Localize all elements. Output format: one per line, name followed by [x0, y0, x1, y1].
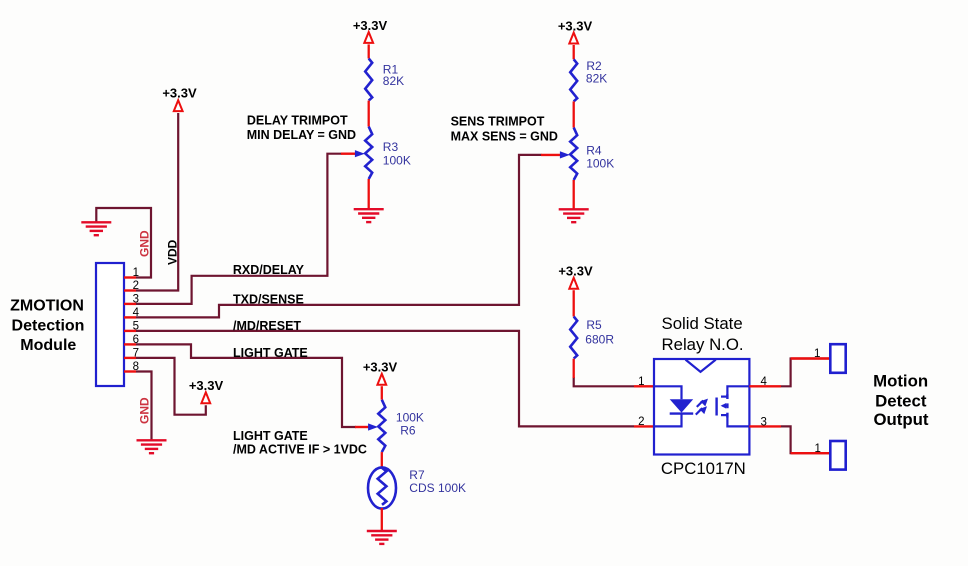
wire R6 to R7	[381, 452, 383, 468]
svg-text:Detection: Detection	[12, 317, 85, 334]
wire opto pin3 to connector J2	[781, 426, 830, 453]
svg-text:82K: 82K	[586, 72, 607, 86]
svg-text:Module: Module	[20, 337, 76, 354]
svg-text:+3.3V: +3.3V	[363, 359, 398, 374]
wire R1 to R3	[368, 101, 370, 127]
svg-text:1: 1	[638, 376, 644, 388]
svg-text:680R: 680R	[585, 332, 614, 346]
svg-text:100K: 100K	[383, 154, 411, 168]
resistor R2	[570, 59, 577, 101]
wire J1 stub red	[791, 357, 831, 359]
power +3.3V P4 (pin7)	[189, 378, 224, 403]
svg-text:RXD/DELAY: RXD/DELAY	[233, 263, 305, 277]
svg-text:+3.3V: +3.3V	[189, 378, 224, 393]
pin 4 stub	[124, 316, 136, 318]
pin 1 stub	[124, 276, 136, 278]
resistor R1	[365, 59, 372, 101]
svg-text:Motion: Motion	[873, 371, 928, 390]
opto light arrow A	[697, 399, 708, 407]
svg-text:Solid State: Solid State	[662, 314, 743, 333]
svg-text:1: 1	[814, 443, 820, 455]
wire R5 lead red part	[573, 359, 575, 378]
svg-text:+3.3V: +3.3V	[162, 86, 197, 101]
svg-text:Detect: Detect	[875, 392, 927, 411]
wire R7 to ground	[381, 508, 383, 530]
opto output MOSFET Q1	[717, 386, 750, 426]
label 100K R6	[396, 411, 424, 438]
svg-text:/MD ACTIVE IF > 1VDC: /MD ACTIVE IF > 1VDC	[233, 442, 367, 456]
svg-text:/MD/RESET: /MD/RESET	[233, 319, 301, 333]
opto pin 4 stub	[749, 385, 781, 387]
connector J1	[830, 344, 845, 373]
module U_ZMOTION body	[96, 263, 124, 386]
trimpot R6	[355, 400, 385, 452]
connector J2	[830, 441, 845, 470]
wire pin5 /MD/RESET to opto pin2	[136, 331, 634, 427]
pin 2 stub	[124, 289, 136, 291]
svg-text:4: 4	[761, 376, 768, 388]
ground G4	[559, 209, 589, 222]
svg-text:LIGHT GATE: LIGHT GATE	[233, 429, 308, 443]
svg-text:82K: 82K	[383, 74, 404, 88]
trimpot R3	[341, 127, 372, 179]
svg-text:Relay N.O.: Relay N.O.	[662, 335, 744, 354]
svg-text:SENS TRIMPOT: SENS TRIMPOT	[451, 115, 545, 129]
svg-text:ZMOTION: ZMOTION	[10, 298, 84, 315]
opto U1 pin 2 stub	[634, 425, 654, 427]
power +3.3V P3 (VDD)	[162, 86, 197, 111]
opto U1 body CPC1017N	[654, 359, 749, 455]
wire pin3 RXD/DELAY	[136, 154, 342, 304]
svg-text:100K: 100K	[586, 156, 614, 170]
label R2 82K	[586, 59, 607, 86]
label R3 100K	[383, 140, 411, 168]
wire J2 stub red	[791, 452, 831, 454]
power +3.3V P6 (R6 top)	[363, 359, 398, 384]
pin 5 stub	[124, 330, 136, 332]
ground G3	[354, 209, 384, 222]
opto U1 pin 1 stub	[634, 385, 654, 387]
module name text ZMOTION Detection Module	[10, 298, 84, 355]
svg-text:+3.3V: +3.3V	[353, 18, 388, 33]
power +3.3V P2 (R2 top)	[558, 18, 593, 43]
wire P2 to R2	[573, 45, 575, 59]
svg-text:DELAY TRIMPOT: DELAY TRIMPOT	[247, 113, 348, 127]
wire pin1 to ground	[96, 208, 151, 278]
opto LED D1	[654, 386, 693, 426]
svg-text:Output: Output	[874, 410, 929, 429]
wire opto pin4 to connector J1	[781, 359, 830, 387]
opto light arrow B	[696, 406, 707, 414]
wire pin8 to ground	[136, 372, 152, 440]
annotation DELAY TRIMPOT	[247, 113, 356, 141]
label R4 100K	[586, 143, 614, 170]
svg-text:R6: R6	[400, 423, 416, 437]
pin 3 stub	[124, 303, 136, 305]
wire P5 to R5	[573, 290, 575, 316]
wire pin4 TXD/SENSE	[136, 155, 542, 318]
svg-text:+3.3V: +3.3V	[558, 18, 593, 33]
wire P1 to R1	[368, 44, 370, 58]
wire R4 to ground	[573, 180, 575, 209]
svg-text:R4: R4	[586, 143, 602, 157]
wire R3 to ground	[368, 179, 370, 208]
wire P6 to R6	[381, 386, 383, 400]
svg-text:GND: GND	[138, 397, 152, 424]
svg-text:R3: R3	[383, 140, 399, 154]
ground G1	[81, 222, 111, 235]
svg-text:MIN DELAY = GND: MIN DELAY = GND	[247, 128, 356, 142]
svg-text:2: 2	[638, 416, 644, 428]
label Motion Detect Output	[873, 371, 929, 429]
svg-text:R5: R5	[586, 318, 602, 332]
wire R5 to opto pin1	[574, 377, 634, 386]
svg-text:+3.3V: +3.3V	[558, 264, 593, 279]
wire pin7 to +3.3V	[136, 358, 206, 415]
svg-text:LIGHT GATE: LIGHT GATE	[233, 346, 308, 360]
svg-text:3: 3	[761, 416, 767, 428]
photocell R7	[368, 467, 396, 508]
label R7 CDS 100K	[409, 468, 466, 495]
svg-text:CPC1017N: CPC1017N	[661, 459, 746, 478]
wire pin2 to +3.3V VDD	[136, 113, 178, 291]
label Solid State Relay N.O.	[662, 314, 744, 354]
ground G5	[367, 531, 397, 544]
label R1 82K	[383, 62, 404, 88]
pin 6 stub	[124, 343, 136, 345]
wire R2 to R4	[573, 101, 575, 127]
svg-text:MAX SENS = GND: MAX SENS = GND	[451, 130, 558, 144]
trimpot R4	[541, 128, 577, 180]
pin 7 stub	[124, 357, 136, 359]
label R5 680R	[585, 318, 614, 346]
svg-text:CDS 100K: CDS 100K	[409, 481, 466, 495]
opto pin 3 stub	[749, 425, 781, 427]
annotation LIGHT GATE /MD ACTIVE	[233, 429, 367, 457]
svg-text:1: 1	[814, 348, 820, 360]
resistor R5	[570, 317, 577, 359]
svg-text:GND: GND	[138, 230, 152, 257]
ground G2	[137, 440, 167, 453]
pin 8 stub	[124, 370, 136, 372]
power +3.3V P5 (R5 top)	[558, 264, 593, 289]
power +3.3V P1 (R1 top)	[353, 18, 388, 43]
annotation SENS TRIMPOT	[451, 115, 558, 144]
svg-text:TXD/SENSE: TXD/SENSE	[233, 293, 304, 307]
wire pin6 LIGHT GATE to R6 wiper	[136, 344, 356, 427]
